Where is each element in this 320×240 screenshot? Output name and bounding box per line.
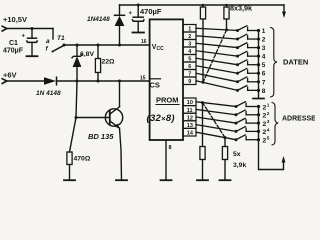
svg-text:DATEN: DATEN: [283, 58, 308, 67]
svg-text:1: 1: [267, 103, 270, 109]
pin box column data (pins 1-7,9): [183, 25, 196, 85]
wire +6V lead: [7, 80, 44, 82]
wire Vcc continues into chip; IC U1 PROM body: [150, 19, 183, 140]
svg-text:T1: T1: [57, 35, 65, 42]
svg-text:14: 14: [187, 131, 194, 137]
svg-text:5x: 5x: [233, 151, 241, 158]
brace ADRESSE: [272, 103, 278, 146]
ground (470Ω): [64, 179, 75, 181]
dashed coupling line (data resistors): [203, 30, 227, 82]
wire zener column down: [70, 81, 78, 152]
svg-text:CS: CS: [150, 81, 160, 90]
node 22Ω on +6V rail: [97, 80, 100, 83]
node zener on +6V rail: [76, 80, 79, 83]
wire +10.5V rail: [7, 28, 53, 30]
node bus joints data: [257, 29, 260, 92]
resistor 3,9k (pull-up B): [224, 4, 229, 32]
svg-text:3,9k: 3,9k: [233, 162, 246, 169]
svg-text:VCC: VCC: [152, 44, 164, 52]
svg-text:6,8V: 6,8V: [80, 51, 94, 58]
diode 1N4148 (to programming rail): [115, 5, 125, 45]
svg-text:8x3,9k: 8x3,9k: [230, 4, 252, 13]
svg-text:7: 7: [188, 72, 191, 78]
svg-text:6: 6: [188, 64, 191, 70]
svg-text:470µF: 470µF: [3, 48, 24, 55]
svg-text:5: 5: [262, 62, 266, 69]
terminal +10,5V: [2, 26, 7, 31]
switch T1 lever: [53, 45, 65, 51]
wire +6V rail to CS: [57, 80, 150, 82]
labels DATEN terminal numbers: [262, 28, 266, 95]
ground (C1): [27, 55, 38, 57]
wire Vcc line: [64, 44, 150, 46]
capacitor C2 470µF: [129, 4, 144, 32]
svg-text:6: 6: [262, 71, 266, 78]
svg-text:13: 13: [187, 123, 193, 129]
svg-text:8: 8: [169, 145, 172, 151]
dashed coupling line (address resistors): [203, 103, 226, 138]
brace DATEN: [271, 28, 278, 98]
resistor 3,9k (pull-up A): [200, 4, 205, 84]
capacitor C1: [22, 29, 38, 56]
pin box column address (pins 10-14): [183, 98, 196, 136]
svg-text:470Ω: 470Ω: [74, 156, 91, 163]
svg-text:3: 3: [267, 119, 270, 125]
wire ADRESSE common bus: [259, 107, 284, 170]
labels data pin numbers: [188, 27, 192, 86]
node 22Ω top: [97, 44, 100, 47]
zener diode 6,8V: [72, 45, 82, 81]
terminal arrow up (address common): [282, 156, 286, 163]
svg-text:4: 4: [267, 127, 270, 133]
svg-text:1: 1: [262, 28, 266, 35]
svg-text:1N 4148: 1N 4148: [36, 90, 61, 97]
svg-text:1: 1: [188, 27, 191, 33]
node zener top: [76, 44, 79, 47]
wire pin8 ground stub: [165, 140, 167, 180]
labels address pin numbers: [187, 100, 194, 136]
svg-text:+: +: [22, 34, 26, 40]
node base junction: [75, 116, 78, 119]
diode 1N4148 (+6V feed): [44, 77, 57, 85]
svg-text:15: 15: [140, 76, 146, 82]
svg-text:12: 12: [187, 115, 193, 121]
wire rail corner and arrow stem: [283, 5, 285, 14]
resistor 3,9k (address left): [200, 101, 205, 180]
svg-text:+6V: +6V: [3, 71, 17, 80]
svg-text:16: 16: [141, 39, 147, 45]
ground (address resistor right): [220, 179, 231, 181]
node collector on +6V rail: [118, 80, 121, 83]
svg-text:BD 135: BD 135: [88, 132, 114, 141]
svg-text:2: 2: [262, 37, 266, 44]
svg-text:22Ω: 22Ω: [102, 59, 116, 66]
wires data lines 1-8: [196, 28, 238, 90]
svg-text:10: 10: [187, 100, 193, 106]
terminal +6V: [2, 79, 7, 84]
node C1 tap: [31, 27, 34, 30]
node bus joints address: [257, 105, 260, 141]
switch T1 contact a feed: [52, 29, 54, 40]
resistor 22Ω: [95, 45, 100, 81]
switches address S9-S13: [235, 102, 259, 142]
transistor Q1 BD135: [76, 81, 123, 180]
svg-text:1N4148: 1N4148: [87, 16, 110, 23]
svg-text:C1: C1: [9, 40, 18, 47]
ground (pin8): [161, 179, 172, 181]
svg-text:9: 9: [188, 79, 191, 85]
wires address lines: [196, 102, 236, 140]
node diode anode on Vcc line: [118, 44, 121, 47]
node T1 pivot: [63, 44, 66, 47]
labels address terminals 2^1..2^5: [263, 103, 270, 145]
svg-text:11: 11: [187, 108, 193, 114]
svg-text:+: +: [129, 11, 133, 17]
resistor 3,9k (address right): [222, 136, 227, 180]
svg-text:a: a: [46, 38, 50, 45]
svg-text:5: 5: [267, 136, 270, 142]
svg-text:2: 2: [267, 111, 270, 117]
svg-text:470µF: 470µF: [140, 7, 162, 16]
ground (emitter): [116, 179, 127, 181]
ground (address resistor left): [197, 179, 208, 181]
svg-text:+10,5V: +10,5V: [3, 15, 27, 24]
wire programming top rail: [120, 4, 285, 6]
switches data S1-S8: [236, 26, 259, 92]
ground (C2): [133, 32, 144, 34]
svg-text:PROM: PROM: [156, 96, 179, 105]
svg-text:(32×8): (32×8): [147, 113, 175, 124]
ground (DATEN bus): [253, 98, 264, 100]
svg-text:5: 5: [188, 57, 191, 63]
svg-text:4: 4: [262, 54, 266, 61]
wire DATEN common bus: [258, 31, 260, 99]
svg-text:2: 2: [188, 34, 191, 40]
terminal arrow down (top right): [282, 12, 286, 19]
svg-text:8: 8: [262, 88, 266, 95]
svg-text:3: 3: [188, 42, 191, 48]
svg-text:7: 7: [262, 79, 266, 86]
svg-text:3: 3: [262, 45, 266, 52]
resistor 470Ω: [67, 152, 72, 180]
svg-text:ADRESSE: ADRESSE: [282, 116, 315, 123]
